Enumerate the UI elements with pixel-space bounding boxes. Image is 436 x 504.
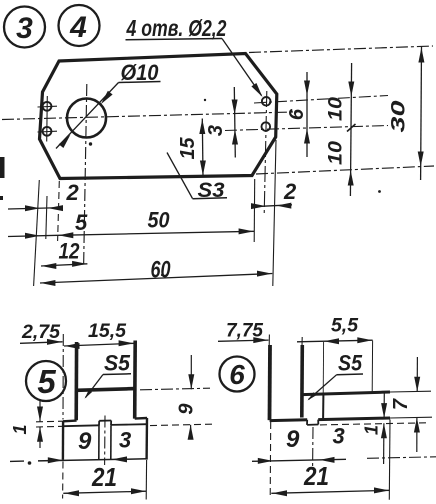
- svg-text:30: 30: [389, 100, 410, 133]
- part6 tab centerline: [312, 427, 314, 466]
- plate outline (octagonal flat plate): [40, 54, 277, 179]
- extension line at bottom-right chamfer corner: [253, 179, 256, 242]
- part6 flange top: [302, 392, 390, 395]
- part5 right wall: [133, 341, 137, 419]
- part5 right foot step: [135, 417, 147, 420]
- dimension row 9 / 3 (part6 bottom): [252, 459, 346, 461]
- svg-text:6: 6: [286, 108, 308, 120]
- upper right hole horizontal centerline: [254, 96, 388, 104]
- bottom-left chamfer corner extension line: [58, 181, 60, 241]
- svg-text:3: 3: [205, 125, 227, 136]
- part5 slot sides: [98, 426, 100, 460]
- svg-text:15,5: 15,5: [88, 321, 126, 342]
- svg-text:50: 50: [148, 208, 171, 233]
- svg-text:7: 7: [390, 398, 412, 410]
- part6 notch vertical: [322, 394, 324, 419]
- svg-text:6: 6: [229, 359, 245, 390]
- part5 base top surface: [63, 424, 99, 427]
- dimension 1 (part5, step height): [36, 420, 63, 423]
- dimension 1 (part6 tab depth): [320, 423, 426, 425]
- part5 base left edge: [62, 421, 65, 460]
- svg-text:2,75: 2,75: [21, 322, 60, 343]
- part5 left reference dash-dot line: [62, 334, 64, 420]
- svg-text:3: 3: [16, 12, 33, 45]
- dimension 2 (left: edge to hole line): [8, 208, 62, 209]
- left pair of holes Ø2.2: [43, 102, 52, 111]
- part6 right wall extension up: [301, 337, 303, 346]
- svg-text:9: 9: [286, 426, 300, 453]
- bottom edge extension line: [256, 166, 434, 174]
- dimension 50: [58, 231, 254, 235]
- part5 left foot step: [63, 419, 77, 422]
- svg-text:S5: S5: [104, 351, 131, 376]
- dimension 21 (part6 overall): [269, 422, 272, 499]
- part5 web: [77, 389, 136, 391]
- dimension 60 (overall width): [40, 274, 272, 284]
- svg-text:10: 10: [326, 141, 347, 165]
- svg-text:15: 15: [177, 137, 199, 160]
- svg-text:3: 3: [333, 424, 345, 449]
- callout balloon 3: [4, 7, 45, 48]
- dimension 30 (overall height): [420, 47, 423, 181]
- chain dimensions 10 / 10: [350, 63, 351, 196]
- left holes horizontal center ticks: [38, 105, 58, 108]
- part5 base right edge: [145, 418, 148, 460]
- svg-text:10: 10: [326, 97, 347, 121]
- right holes vertical centerline extended down for 2-dim: [264, 91, 267, 214]
- dimension 15 (centerline to bottom edge): [201, 119, 204, 177]
- extension for 5,5 right: [371, 341, 373, 393]
- dimension 3 (centerline to lower hole line): [234, 87, 235, 158]
- callout balloon 5: [26, 361, 66, 401]
- dimension 12 (edge to hole Ø10 center): [41, 264, 87, 266]
- svg-text:5: 5: [75, 210, 88, 235]
- svg-text:4 отв. Ø2,2: 4 отв. Ø2,2: [126, 15, 227, 41]
- left edge extension line down: [34, 180, 40, 286]
- dimension 9 (part5 right, web to base): [140, 388, 210, 390]
- svg-text:9: 9: [78, 428, 92, 455]
- svg-text:1: 1: [361, 425, 381, 435]
- dimension 5 (edge to chamfer): [8, 235, 58, 236]
- part5 left wall: [74, 342, 78, 420]
- svg-text:2: 2: [66, 180, 80, 205]
- left holes vertical centerline: [46, 96, 49, 142]
- part6 tab (downward): [306, 420, 308, 425]
- left holes column extension line down: [46, 196, 47, 239]
- part5 tab (1mm): [98, 421, 100, 426]
- stray dash-dot extension right of part6: [367, 457, 436, 459]
- dimension row 9 / 3 (part5 bottom): [10, 460, 24, 462]
- right edge extension line down: [273, 140, 276, 286]
- svg-text:9: 9: [176, 403, 198, 415]
- dimension 21 (part5 overall): [62, 462, 64, 499]
- scan edge artifact left margin: [0, 157, 5, 178]
- dimension 6 (between right hole lines): [306, 72, 308, 157]
- svg-text:12: 12: [59, 239, 81, 264]
- callout balloon 6: [220, 357, 255, 392]
- vertical centerline of hole Ø10 (extends down to 12-dim row): [84, 84, 87, 267]
- extension for 5,5 left (notch): [322, 342, 324, 394]
- svg-text:5,5: 5,5: [331, 316, 358, 337]
- right pair of holes Ø2.2: [262, 97, 271, 106]
- main horizontal centerline: [2, 112, 293, 120]
- part6 left wall: [268, 345, 272, 420]
- svg-text:1: 1: [10, 424, 30, 434]
- lower right hole horizontal centerline: [225, 126, 388, 131]
- svg-text:5: 5: [37, 363, 56, 400]
- svg-text:60: 60: [151, 257, 171, 284]
- part5 slot centerline: [104, 416, 106, 466]
- svg-text:S5: S5: [338, 351, 363, 376]
- hole Ø10: [67, 99, 106, 138]
- svg-text:21: 21: [91, 462, 117, 492]
- dimension 2 (right: hole line to right edge): [251, 205, 292, 207]
- part6 wall extension up: [268, 335, 270, 347]
- callout balloon 4: [59, 5, 100, 46]
- svg-text:2: 2: [283, 179, 297, 204]
- dimension 7 (flange thickness): [390, 390, 431, 393]
- ink specks: [89, 142, 92, 145]
- svg-text:4: 4: [69, 11, 87, 44]
- part6 bottom edge: [270, 418, 308, 422]
- top edge extension line: [249, 46, 433, 53]
- svg-text:3: 3: [119, 428, 131, 453]
- part6 right wall: [300, 345, 304, 418]
- svg-text:21: 21: [303, 461, 329, 491]
